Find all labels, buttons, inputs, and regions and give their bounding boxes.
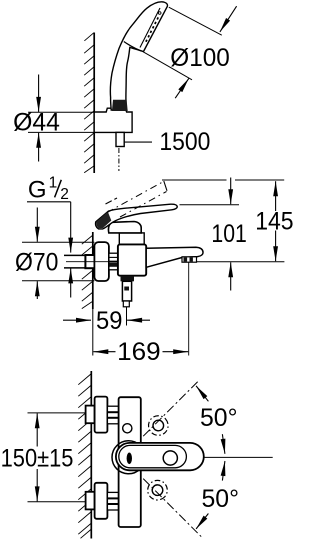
wall line (middle view)	[92, 232, 94, 309]
wall face extension line down to 59/169 dims	[92, 309, 94, 356]
hand shower head and handle outline	[110, 2, 167, 110]
lever blade	[96, 204, 178, 229]
mixer body upper part	[119, 233, 144, 245]
lower union nut	[107, 492, 118, 510]
mixer body	[118, 244, 146, 275]
ext line raised lever top (145)	[162, 179, 227, 181]
svg-text:50°: 50°	[202, 485, 240, 513]
lower escutcheon plate	[95, 483, 108, 519]
union nut (side view)	[109, 253, 118, 270]
lever pivot circle	[163, 451, 177, 465]
lower thread block	[86, 492, 95, 510]
holder cone grip end	[112, 100, 128, 111]
svg-text:150±15: 150±15	[1, 445, 74, 473]
svg-text:59: 59	[96, 307, 122, 335]
svg-text:1: 1	[49, 174, 58, 191]
ext line outlet level	[197, 261, 284, 263]
upper 50 deg dimension arrows	[196, 386, 208, 401]
dimension 145 arrows	[275, 181, 277, 211]
G1/2 underline and leader arrows	[27, 201, 71, 203]
shower holder bracket	[94, 108, 132, 132]
phantom raised lever dashes	[107, 182, 164, 213]
lever outer stadium (top view)	[116, 443, 204, 470]
svg-text:Ø100: Ø100	[170, 44, 230, 72]
hose nipple (1500 hose connection)	[116, 132, 124, 146]
dimension 150 arrows	[36, 413, 38, 446]
lower 50 deg dimension arrows	[222, 461, 225, 481]
mixer body (top view)	[119, 397, 141, 527]
wall line (bottom view)	[90, 371, 92, 539]
leader line 1500	[124, 141, 152, 143]
dimension 150 ext lines	[28, 412, 86, 414]
dimension D44 arrows	[38, 75, 40, 112]
small circle on spray plate	[158, 12, 161, 15]
spout	[146, 247, 203, 267]
spray nozzle dots	[146, 17, 158, 41]
svg-text:169: 169	[117, 338, 161, 366]
wall hatching (middle view)	[82, 236, 93, 309]
wall line (top view)	[93, 33, 95, 174]
dimension 101 arrows	[230, 178, 232, 205]
inlet pipe lines	[64, 254, 94, 256]
shower hose nipple (middle view)	[122, 281, 131, 301]
ext line closed lever top (101)	[180, 204, 240, 206]
dimension D100 arrows	[220, 6, 237, 32]
dimension ext lines D44	[28, 111, 94, 113]
lever pivot cap	[108, 222, 141, 233]
lower phantom lever position	[144, 476, 172, 504]
dimension D100 ext lines	[169, 7, 222, 35]
upper union nut	[107, 406, 118, 424]
svg-text:G: G	[28, 177, 47, 204]
dark slot at lever base	[127, 453, 132, 465]
spray plate inner line	[140, 8, 160, 48]
upper escutcheon plate	[95, 397, 108, 433]
dimension 169 arrows	[93, 351, 115, 353]
svg-text:2: 2	[60, 186, 69, 203]
shower outlet nut (dark)	[121, 276, 135, 282]
aerator centerline (169 ext)	[188, 263, 190, 356]
body screw circle	[123, 424, 132, 433]
horizontal reference line	[204, 456, 273, 458]
cartridge dome circle	[112, 441, 145, 474]
head neck junction line	[124, 42, 144, 52]
wall hatching (bottom view)	[78, 374, 91, 538]
svg-text:1500: 1500	[159, 128, 210, 156]
lever rear dark wedge	[96, 212, 111, 229]
svg-text:50°: 50°	[200, 404, 238, 432]
escutcheon (side view)	[94, 242, 109, 281]
dimension D70 arrows	[36, 208, 38, 242]
upper phantom axis line	[143, 380, 200, 437]
nipple centerline (59 ext)	[126, 307, 128, 326]
svg-text:Ø44: Ø44	[13, 108, 60, 136]
lower phantom axis line	[143, 479, 202, 538]
phantom lever tip tick	[164, 181, 167, 191]
wall hatching (top view)	[84, 33, 94, 173]
G1/2 thread block in wall	[85, 255, 94, 268]
upper phantom lever position	[144, 412, 172, 440]
centerline below nipple	[118, 148, 120, 171]
lever inner stadium	[119, 445, 187, 467]
svg-text:Ø70: Ø70	[15, 248, 58, 276]
dimension 59 arrows	[63, 319, 91, 321]
aerator	[182, 257, 197, 262]
svg-text:145: 145	[255, 208, 293, 236]
svg-text:101: 101	[211, 220, 246, 248]
dimension D70 ext lines	[22, 241, 94, 243]
pipe centerline	[66, 261, 118, 263]
upper thread block	[86, 406, 95, 424]
